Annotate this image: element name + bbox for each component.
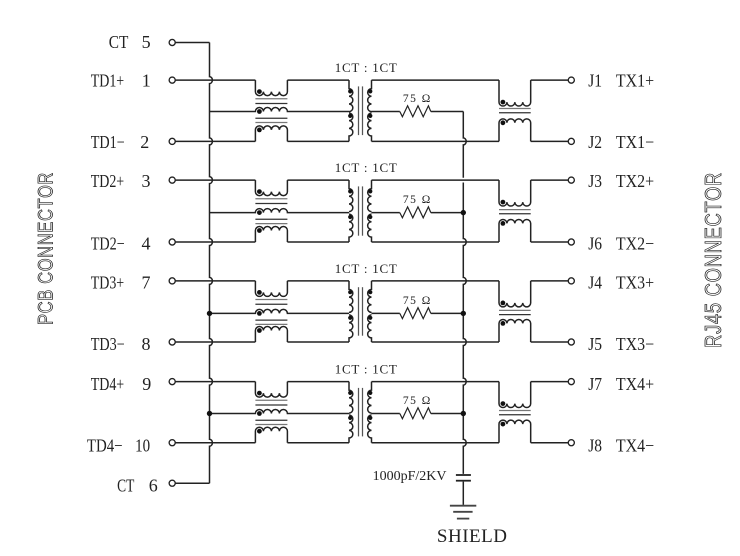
svg-text:CT: CT [117, 475, 134, 495]
wire choke CM2 to transformer T2 (bottom) [287, 241, 349, 243]
resistor R1 75 ohm [400, 106, 431, 117]
label PCB CONNECTOR [35, 172, 58, 325]
wire choke CM4 to transformer T4 (bottom) [287, 442, 349, 444]
pin label TD3- 8 [91, 334, 151, 354]
common-mode choke CM3 bottom winding [255, 327, 287, 343]
wire TD4+ to choke [175, 381, 255, 383]
svg-text:1CT : 1CT: 1CT : 1CT [335, 261, 398, 276]
common-mode choke CM1b bottom winding [499, 119, 531, 142]
transformer T4 label 1CT:1CT [335, 362, 398, 377]
wire T1 secondary CT to resistor R1 [372, 111, 400, 113]
svg-text:CT: CT [109, 32, 129, 52]
svg-text:75 Ω: 75 Ω [403, 295, 432, 307]
core CM1b [499, 109, 531, 113]
wire choke CM3 to transformer T3 (top) [287, 280, 349, 282]
svg-text:RJ45 CONNECTOR: RJ45 CONNECTOR [700, 172, 726, 348]
svg-text:TX1−: TX1− [616, 132, 654, 152]
core CM2 lower [255, 219, 287, 223]
wire choke CM3b to J5 [531, 341, 569, 343]
transformer T4 primary winding [349, 382, 353, 443]
phase dot CM2 top [257, 189, 262, 194]
svg-text:J1: J1 [588, 71, 602, 91]
pin label J6 TX2− [588, 233, 654, 253]
common-mode choke CM4 middle winding [210, 410, 350, 414]
pin circle J3 [568, 177, 574, 183]
transformer T3 secondary winding [368, 281, 372, 342]
svg-text:J4: J4 [588, 273, 602, 293]
svg-text:1: 1 [142, 71, 151, 91]
core CM4 lower [255, 420, 287, 424]
phase dot T1 secondary upper [368, 89, 372, 93]
junction bus / CM4 centre tap [207, 411, 212, 416]
wire choke CM2b to J3 [531, 179, 569, 181]
transformer T2 core [359, 186, 363, 235]
phase dot CM4b top [501, 401, 506, 406]
svg-text:TX3+: TX3+ [616, 273, 654, 293]
core CM3 lower [255, 320, 287, 324]
transformer T4 secondary winding [368, 382, 372, 443]
phase dot CM1 top [257, 89, 262, 94]
pin circle J7 [568, 379, 574, 385]
phase dot T4 primary upper [348, 391, 352, 395]
transformer T1 secondary winding [368, 80, 372, 141]
pin circle TD3+ [169, 278, 175, 284]
svg-text:2: 2 [140, 132, 149, 152]
phase dot T3 secondary upper [368, 290, 372, 294]
pin circle J2 [568, 138, 574, 144]
svg-text:1CT : 1CT: 1CT : 1CT [335, 60, 398, 75]
wire CT5 to bus [175, 42, 209, 44]
phase dot CM4 middle [257, 411, 262, 416]
common-mode choke CM1b top winding [499, 80, 531, 106]
pin label CT 6 [117, 475, 158, 495]
svg-text:J8: J8 [588, 435, 602, 455]
svg-text:TD4−: TD4− [87, 435, 123, 455]
junction R4 / common node [461, 411, 466, 416]
pin label J8 TX4− [588, 435, 654, 455]
ground SHIELD symbol [450, 506, 476, 519]
svg-text:75 Ω: 75 Ω [403, 395, 432, 407]
wire choke CM4b to J7 [531, 381, 569, 383]
phase dot CM2b bottom [501, 221, 506, 226]
common-mode choke CM3b top winding [499, 281, 531, 307]
phase dot CM2 bottom [257, 228, 262, 233]
svg-text:1CT : 1CT: 1CT : 1CT [335, 160, 398, 175]
wire T4 secondary CT to resistor R4 [372, 413, 400, 415]
pin label CT 5 [109, 32, 151, 52]
resistor R2 75 ohm [400, 207, 431, 218]
wire capacitor to ground [462, 482, 464, 505]
wire choke CM4b to J8 [531, 442, 569, 444]
wire choke CM2 to transformer T2 (top) [287, 179, 349, 181]
pin circle J4 [568, 278, 574, 284]
wire choke CM1b to J1 [531, 79, 569, 81]
wire T3 secondary CT to resistor R3 [372, 312, 400, 314]
pin label TD2+ 3 [91, 171, 151, 191]
wire choke CM1 to transformer T1 (top) [287, 79, 349, 81]
common-mode choke CM1 middle winding [210, 108, 350, 112]
wire TD2+ to choke [175, 179, 255, 181]
wire TD2- to choke [175, 241, 255, 243]
transformer T1 label 1CT:1CT [335, 60, 398, 75]
phase dot CM1b bottom [501, 120, 506, 125]
wire choke CM4 to transformer T4 (top) [287, 381, 349, 383]
svg-text:1CT : 1CT: 1CT : 1CT [335, 362, 398, 377]
pin label J3 TX2+ [588, 171, 654, 191]
transformer T4 core [359, 388, 363, 437]
common-mode choke CM2b top winding [499, 180, 531, 206]
pin circle TD1+ [169, 77, 175, 83]
svg-text:J3: J3 [588, 171, 602, 191]
common-mode choke CM2b bottom winding [499, 219, 531, 242]
wire T1 to right choke CM1b (top) [372, 79, 500, 81]
phase dot T2 primary upper [348, 189, 352, 193]
phase dot CM4 top [257, 391, 262, 396]
svg-text:J6: J6 [588, 233, 602, 253]
phase dot CM3 middle [257, 311, 262, 316]
transformer T1 core [359, 86, 363, 135]
label R4 75 ohm [403, 395, 432, 407]
pin circle TD2- [169, 239, 175, 245]
wire TD4- to choke [175, 442, 255, 444]
common-mode choke CM3 middle winding [210, 309, 350, 313]
svg-text:4: 4 [142, 233, 151, 253]
svg-text:TD1+: TD1+ [91, 71, 125, 91]
wire choke CM3b to J4 [531, 280, 569, 282]
wire resistor R4 to common node [431, 413, 464, 415]
phase dot T3 secondary lower [368, 316, 372, 320]
wire TD3- to choke [175, 341, 255, 343]
phase dot T3 primary lower [348, 316, 352, 320]
transformer T1 primary winding [349, 80, 353, 141]
pin circle TD1- [169, 138, 175, 144]
pin circle CT 5 [169, 39, 175, 45]
transformer T2 label 1CT:1CT [335, 160, 398, 175]
phase dot CM1 bottom [257, 127, 262, 132]
phase dot CM3 top [257, 290, 262, 295]
wire resistor R2 to common node [431, 212, 464, 214]
junction bus / CM3 centre tap [207, 311, 212, 316]
core CM1 lower [255, 118, 287, 122]
wire T4 to right choke CM4b (bottom) [372, 442, 500, 444]
phase dot CM2 middle [257, 210, 262, 215]
phase dot T2 secondary upper [368, 189, 372, 193]
svg-text:10: 10 [135, 435, 150, 455]
phase dot CM1b top [501, 100, 506, 105]
pin label J2 TX1− [588, 132, 654, 152]
pin label J4 TX3+ [588, 273, 654, 293]
common-mode choke CM1 top winding [255, 80, 287, 96]
pin label J5 TX3− [588, 334, 654, 354]
core CM3b [499, 310, 531, 314]
svg-text:TX4−: TX4− [616, 435, 654, 455]
pin label TD4- 10 [87, 435, 150, 455]
label RJ45 CONNECTOR [700, 172, 726, 348]
wire T3 to right choke CM3b (bottom) [372, 341, 500, 343]
pin circle J1 [568, 77, 574, 83]
svg-text:TD2+: TD2+ [91, 171, 125, 191]
pin circle TD2+ [169, 177, 175, 183]
transformer T3 label 1CT:1CT [335, 261, 398, 276]
wire TD1- to choke [175, 140, 255, 142]
wire T2 secondary CT to resistor R2 [372, 212, 400, 214]
phase dot T3 primary upper [348, 290, 352, 294]
common-mode choke CM3b bottom winding [499, 319, 531, 342]
phase dot T1 secondary lower [368, 114, 372, 118]
common-mode choke CM3 top winding [255, 281, 287, 297]
pin circle J6 [568, 239, 574, 245]
svg-text:TX4+: TX4+ [616, 374, 654, 394]
label SHIELD [437, 526, 508, 547]
transformer T2 primary winding [349, 180, 353, 242]
phase dot T1 primary lower [348, 114, 352, 118]
core CM2 upper [255, 199, 287, 204]
wire TD3+ to choke [175, 280, 255, 282]
junction R3 / common node [461, 311, 466, 316]
core CM1 upper [255, 99, 287, 104]
label R2 75 ohm [403, 194, 432, 206]
core CM3 upper [255, 300, 287, 305]
phase dot CM3 bottom [257, 328, 262, 333]
svg-text:TD1−: TD1− [91, 132, 125, 152]
core CM2b [499, 210, 531, 214]
svg-text:J7: J7 [588, 374, 602, 394]
phase dot CM4b bottom [501, 422, 506, 427]
wire resistor R1 to common node [431, 111, 464, 113]
common-mode choke CM4b bottom winding [499, 420, 531, 443]
phase dot T4 primary lower [348, 416, 352, 420]
svg-text:TX2−: TX2− [616, 233, 654, 253]
phase dot T4 secondary lower [368, 416, 372, 420]
common-mode choke CM2 top winding [255, 180, 287, 196]
phase dot CM1 middle [257, 109, 262, 114]
svg-text:TX1+: TX1+ [616, 71, 654, 91]
wire CT6 to bus [175, 482, 209, 484]
label C1 1000pF/2KV [373, 469, 447, 484]
pin label TD2- 4 [91, 233, 151, 253]
svg-text:J5: J5 [588, 334, 602, 354]
wire resistor R3 to common node [431, 312, 464, 314]
transformer T3 core [359, 287, 363, 336]
svg-text:8: 8 [142, 334, 151, 354]
svg-text:9: 9 [142, 374, 151, 394]
label R1 75 ohm [403, 93, 432, 105]
pin label J7 TX4+ [588, 374, 654, 394]
common-mode choke CM4b top winding [499, 382, 531, 408]
wire choke CM3 to transformer T3 (bottom) [287, 341, 349, 343]
pin circle J8 [568, 440, 574, 446]
wire T4 to right choke CM4b (top) [372, 381, 500, 383]
pin circle TD4- [169, 440, 175, 446]
svg-text:TX2+: TX2+ [616, 171, 654, 191]
pin label TD4+ 9 [91, 374, 152, 394]
pin circle TD3- [169, 339, 175, 345]
svg-text:75 Ω: 75 Ω [403, 93, 432, 105]
resistor R3 75 ohm [400, 308, 431, 319]
wire 75-ohm common node vertical to capacitor [463, 112, 466, 474]
common-mode choke CM4 bottom winding [255, 427, 287, 443]
phase dot CM3b top [501, 301, 506, 306]
transformer T2 secondary winding [368, 180, 372, 242]
wire choke CM1 to transformer T1 (bottom) [287, 140, 349, 142]
phase dot CM3b bottom [501, 321, 506, 326]
phase dot CM4 bottom [257, 429, 262, 434]
pin circle CT 6 [169, 480, 175, 486]
label R3 75 ohm [403, 295, 432, 307]
svg-text:3: 3 [142, 171, 151, 191]
common-mode choke CM2 bottom winding [255, 227, 287, 243]
wire choke CM2b to J6 [531, 241, 569, 243]
wire choke CM1b to J2 [531, 140, 569, 142]
svg-text:5: 5 [142, 32, 151, 52]
core CM4 upper [255, 400, 287, 405]
pin circle TD4+ [169, 379, 175, 385]
wire CT bus (vertical, hops over TD lines) [210, 43, 213, 484]
svg-text:1000pF/2KV: 1000pF/2KV [373, 469, 447, 484]
core CM4b [499, 411, 531, 415]
svg-text:6: 6 [149, 475, 158, 495]
wire T2 to right choke CM2b (top) [372, 179, 500, 181]
svg-text:7: 7 [142, 273, 151, 293]
wire TD1+ to choke [175, 79, 255, 81]
pin label TD3+ 7 [91, 273, 151, 293]
phase dot CM2b top [501, 200, 506, 205]
resistor R4 75 ohm [400, 408, 431, 419]
common-mode choke CM2 middle winding [210, 209, 350, 213]
svg-text:PCB CONNECTOR: PCB CONNECTOR [35, 172, 58, 325]
common-mode choke CM4 top winding [255, 382, 287, 398]
svg-text:J2: J2 [588, 132, 602, 152]
svg-text:TD3−: TD3− [91, 334, 125, 354]
phase dot T2 secondary lower [368, 215, 372, 219]
svg-text:TX3−: TX3− [616, 334, 654, 354]
wire T2 to right choke CM2b (bottom) [372, 241, 500, 243]
junction R2 / common node [461, 210, 466, 215]
transformer T3 primary winding [349, 281, 353, 342]
svg-text:75 Ω: 75 Ω [403, 194, 432, 206]
svg-text:TD3+: TD3+ [91, 273, 125, 293]
phase dot T1 primary upper [348, 89, 352, 93]
capacitor C1 1000pF/2KV [456, 475, 471, 481]
pin circle J5 [568, 339, 574, 345]
svg-text:TD4+: TD4+ [91, 374, 125, 394]
phase dot T2 primary lower [348, 215, 352, 219]
common-mode choke CM1 bottom winding [255, 126, 287, 142]
pin label J1 TX1+ [588, 71, 654, 91]
phase dot T4 secondary upper [368, 391, 372, 395]
wire T3 to right choke CM3b (top) [372, 280, 500, 282]
svg-text:TD2−: TD2− [91, 233, 125, 253]
pin label TD1+ 1 [91, 71, 151, 91]
pin label TD1- 2 [91, 132, 150, 152]
svg-text:SHIELD: SHIELD [437, 526, 508, 547]
wire T1 to right choke CM1b (bottom) [372, 140, 500, 142]
